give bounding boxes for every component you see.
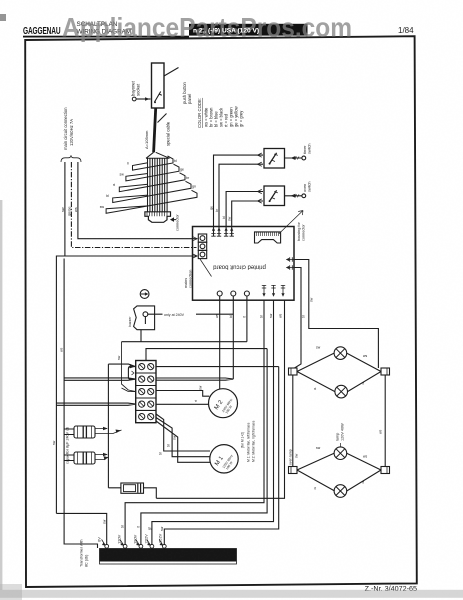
- svg-text:gn: gn: [192, 185, 196, 189]
- drop wire 5 suppressor: [156, 300, 284, 498]
- bus second: [64, 259, 97, 549]
- model black bar: [189, 24, 308, 36]
- wire gn/ge ground dash-dot: [71, 162, 196, 248]
- svg-text:rt: rt: [314, 387, 316, 391]
- svg-text:switch: switch: [308, 181, 312, 192]
- svg-text:sw: sw: [269, 313, 273, 318]
- svg-text:252V: 252V: [158, 533, 163, 543]
- svg-text:120V/60Hz 7A: 120V/60Hz 7A: [69, 119, 74, 146]
- svg-text:br: br: [215, 208, 219, 212]
- tap labels: [96, 533, 162, 544]
- S1 output terminal: [285, 157, 303, 159]
- svg-text:rt: rt: [137, 526, 141, 528]
- switch S2 lever: [269, 190, 276, 201]
- lamp circuits: [289, 260, 390, 498]
- svg-text:1/84: 1/84: [398, 26, 414, 35]
- switch S1 box: [264, 149, 285, 169]
- svg-text:A=105mm: A=105mm: [144, 130, 149, 149]
- svg-text:special cable: special cable: [166, 121, 171, 146]
- motor M1: [156, 414, 256, 473]
- bayonet socket: [132, 97, 136, 101]
- svg-text:sw: sw: [228, 216, 232, 221]
- svg-text:M 2: Motor fan, right furnace: M 2: Motor fan, right furnace: [252, 420, 256, 462]
- svg-text:mains: mains: [184, 278, 188, 288]
- transformer core: [100, 549, 237, 562]
- wire sw mains: [65, 162, 197, 256]
- svg-text:bl: bl: [229, 315, 233, 318]
- motor notes rotated: [241, 420, 256, 462]
- svg-text:sw: sw: [117, 355, 121, 360]
- fan wire labels: [100, 159, 196, 209]
- lamp E4: [334, 485, 347, 498]
- svg-text:ws: ws: [215, 314, 219, 318]
- motor M2: [194, 300, 283, 418]
- svg-text:connector: connector: [176, 214, 180, 231]
- diamond 1 wires: [297, 353, 381, 392]
- svg-text:bl: bl: [302, 315, 306, 318]
- multipoint connector shoe: [145, 212, 171, 223]
- svg-text:gn/ge: gn/ge: [67, 206, 71, 216]
- rotation symbol: [140, 290, 149, 299]
- terminal block outline: [136, 361, 156, 423]
- svg-text:0V: 0V: [96, 537, 101, 542]
- svg-text:ge: ge: [209, 206, 213, 210]
- svg-text:sw: sw: [120, 172, 125, 176]
- wire PCB to M2 top: [219, 300, 221, 389]
- wire row2 right pair: [156, 378, 233, 380]
- svg-text:bl: bl: [174, 159, 177, 163]
- svg-text:rt: rt: [362, 481, 364, 485]
- buzzer and fan symbol group: [128, 290, 233, 342]
- svg-text:sw: sw: [316, 446, 321, 450]
- PCB mains terminal X1: [198, 234, 206, 242]
- drop wire 3: [152, 300, 274, 545]
- wire PCB to lamp right bus: [294, 260, 378, 369]
- svg-text:oven: oven: [303, 184, 307, 192]
- svg-text:sw: sw: [172, 435, 176, 440]
- svg-text:ws: ws: [60, 347, 64, 352]
- svg-text:sw: sw: [61, 207, 65, 212]
- wire loom branch 5: [106, 190, 197, 213]
- svg-text:n 2.. (-/9) USA (120 V): n 2.. (-/9) USA (120 V): [193, 27, 259, 34]
- diamond 2 wire labels: [314, 446, 367, 491]
- wire row4 left pair from bus: [56, 403, 135, 405]
- svg-text:sw: sw: [199, 385, 203, 390]
- svg-text:only at 240V: only at 240V: [164, 313, 185, 317]
- wire to S2 pin2: [232, 201, 263, 236]
- wire row4 right to M2: [156, 403, 209, 405]
- push button panel U1: [152, 63, 165, 108]
- wire ws mains: [78, 162, 197, 239]
- svg-text:panel: panel: [187, 94, 192, 104]
- svg-text:sw: sw: [52, 440, 56, 445]
- wire PCB to lamp left bus: [294, 268, 301, 369]
- wire fan / loom: [100, 156, 197, 213]
- svg-text:120V: 120V: [117, 534, 122, 544]
- lamp connector X5 right: [381, 467, 390, 474]
- housing for connector comb: [255, 232, 281, 243]
- PCB right plugs: [287, 257, 295, 261]
- svg-text:gr: gr: [148, 526, 152, 530]
- block top wire to vertical: [146, 349, 267, 361]
- svg-text:ws: ws: [363, 455, 367, 459]
- lamp chain left: [292, 375, 294, 467]
- svg-text:rt: rt: [362, 382, 364, 386]
- svg-text:GAGGENAU: GAGGENAU: [23, 25, 61, 37]
- lamp connector X4 left: [289, 467, 298, 474]
- svg-text:oven lamp: oven lamp: [289, 449, 293, 465]
- suppressor wires: [108, 488, 156, 499]
- cable flare connector: [146, 152, 170, 158]
- wire loom branch 1: [133, 156, 174, 170]
- wire horizontal to PCB terminal: [122, 341, 247, 343]
- lamp connector X3 right: [381, 368, 390, 375]
- svg-text:br: br: [158, 451, 162, 455]
- svg-text:sw: sw: [160, 526, 164, 531]
- wire loom branch 4: [113, 181, 191, 202]
- wire PCB terminal down: [232, 300, 234, 379]
- PCB bottom terminals: [217, 291, 222, 296]
- wire labels under PCB: [194, 313, 283, 402]
- S2 output terminal: [285, 195, 303, 197]
- svg-text:gr = grey: gr = grey: [239, 110, 244, 127]
- wire row3 left pair: [122, 342, 136, 392]
- capacitor C1: [74, 426, 95, 438]
- scan gray corner blob: [0, 584, 22, 600]
- svg-text:M 1: Motor fan, left furnace: M 1: Motor fan, left furnace: [247, 422, 251, 462]
- transformer T1: [80, 519, 237, 567]
- jumper wire rows 1-2: [128, 367, 135, 380]
- mains connection group: [61, 107, 198, 258]
- svg-text:120V 40W: 120V 40W: [341, 423, 345, 441]
- color code table: [197, 98, 244, 128]
- M1 wire labels: [158, 435, 176, 455]
- capacitors: [64, 426, 121, 464]
- lamp chain right: [384, 375, 386, 467]
- svg-text:ws: ws: [379, 429, 383, 434]
- housing label leader: [279, 211, 303, 234]
- svg-text:(for M 1+2): (for M 1+2): [241, 432, 245, 448]
- label push button panel: [164, 68, 179, 77]
- wire row1 right to bus: [156, 366, 279, 368]
- svg-text:sw: sw: [310, 297, 314, 302]
- capacitor C2: [74, 452, 95, 464]
- PCB bottom plug pins: [262, 285, 266, 295]
- screw terminals: [139, 364, 154, 420]
- switch S1 lever: [269, 153, 276, 164]
- wire row1 left: [108, 364, 135, 367]
- suppressor Z1: [108, 483, 156, 498]
- svg-text:rt: rt: [113, 183, 115, 187]
- wire only at 240V: [148, 313, 234, 315]
- svg-text:222V: 222V: [144, 534, 149, 544]
- svg-text:switch: switch: [308, 143, 312, 154]
- logo underline: [23, 36, 189, 38]
- scan left edge: [0, 200, 2, 590]
- svg-text:buzzer: buzzer: [128, 316, 132, 327]
- svg-text:ws: ws: [363, 354, 367, 358]
- brace: [61, 155, 81, 162]
- svg-text:printed circuit board: printed circuit board: [213, 264, 266, 270]
- drop wire 4: [164, 367, 278, 545]
- taps: [102, 540, 167, 549]
- wire row3 right to M2: [156, 391, 209, 397]
- PCB top plug pins: [211, 229, 215, 237]
- drop wire 1: [125, 300, 264, 545]
- scan gray bottom band: [0, 590, 463, 598]
- wires block to M1: [156, 414, 210, 451]
- switch inside panel: [155, 92, 162, 103]
- bus sw left: [56, 256, 65, 513]
- svg-text:sw: sw: [316, 346, 321, 350]
- lamp connector X2 left: [289, 368, 298, 375]
- svg-text:br: br: [186, 176, 190, 180]
- buzzer H1: [134, 306, 155, 330]
- transformer 0V riser: [56, 513, 106, 545]
- drop wire 2: [141, 349, 267, 545]
- svg-text:bl: bl: [121, 525, 125, 528]
- svg-text:rt: rt: [242, 316, 246, 318]
- svg-text:timer: timer: [303, 145, 307, 154]
- svg-text:ge: ge: [180, 167, 184, 171]
- svg-text:housing for: housing for: [297, 221, 301, 241]
- terminal block X6: [56, 342, 278, 423]
- wire loom branch 2: [126, 164, 179, 181]
- PCB outline: [193, 227, 295, 301]
- printed circuit board U2: [184, 211, 306, 301]
- svg-text:sw: sw: [295, 453, 299, 458]
- C1 wires: [64, 429, 74, 435]
- bus vertical mid: [107, 364, 109, 488]
- wire to S2 pin1: [226, 192, 263, 237]
- svg-text:main circuit connection: main circuit connection: [63, 107, 68, 150]
- svg-text:connection: connection: [189, 270, 193, 288]
- buzzer bottom wire: [140, 330, 142, 342]
- svg-text:connector: connector: [302, 224, 306, 241]
- switch S2 box: [264, 186, 285, 206]
- wire loom branch 3: [119, 173, 185, 192]
- svg-text:8C (db): 8C (db): [85, 555, 89, 567]
- svg-text:br: br: [260, 314, 264, 318]
- svg-text:COLOR CODE:: COLOR CODE:: [197, 98, 202, 128]
- leader line: [200, 259, 212, 277]
- svg-text:190V: 190V: [133, 534, 138, 544]
- connector label: [171, 218, 176, 221]
- diamond 2 wires: [297, 453, 381, 491]
- svg-text:ws: ws: [279, 314, 283, 318]
- switch S1 group: [214, 143, 312, 236]
- svg-text:capacitor 8µF 240V db: capacitor 8µF 240V db: [66, 427, 70, 464]
- MAIN SCHEMATIC: [131, 63, 193, 158]
- lamp E1: [334, 347, 347, 360]
- wire to S1 pin2: [219, 164, 263, 236]
- ribbon cable wires: [148, 159, 168, 212]
- switch S2 group: [209, 181, 311, 236]
- svg-text:bl: bl: [106, 194, 109, 198]
- left bus wires: [52, 256, 109, 548]
- svg-text:ws: ws: [74, 207, 78, 212]
- svg-text:Transformer with: Transformer with: [80, 539, 84, 567]
- svg-text:socket: socket: [136, 83, 141, 96]
- wire to S1 pin1: [214, 155, 264, 236]
- special cable: [154, 108, 156, 152]
- svg-text:lamp: lamp: [336, 433, 340, 441]
- border frame: [25, 36, 417, 587]
- scan mark top-left: [0, 14, 6, 21]
- riser labels: [102, 519, 164, 531]
- wire row2 left pair from bus: [64, 378, 136, 380]
- svg-text:rt: rt: [194, 400, 198, 402]
- right side drop wires to transformer: [56, 300, 284, 545]
- svg-text:bl: bl: [167, 444, 171, 447]
- svg-text:li: li: [127, 162, 129, 166]
- C2 wires: [64, 455, 74, 461]
- svg-text:sw: sw: [102, 519, 106, 524]
- svg-text:bl: bl: [222, 216, 226, 219]
- svg-text:rt: rt: [314, 487, 316, 491]
- lamp E3: [334, 447, 347, 460]
- diamond 1 wire labels: [314, 346, 367, 392]
- lamp E2: [335, 385, 348, 398]
- svg-text:sw: sw: [100, 205, 105, 209]
